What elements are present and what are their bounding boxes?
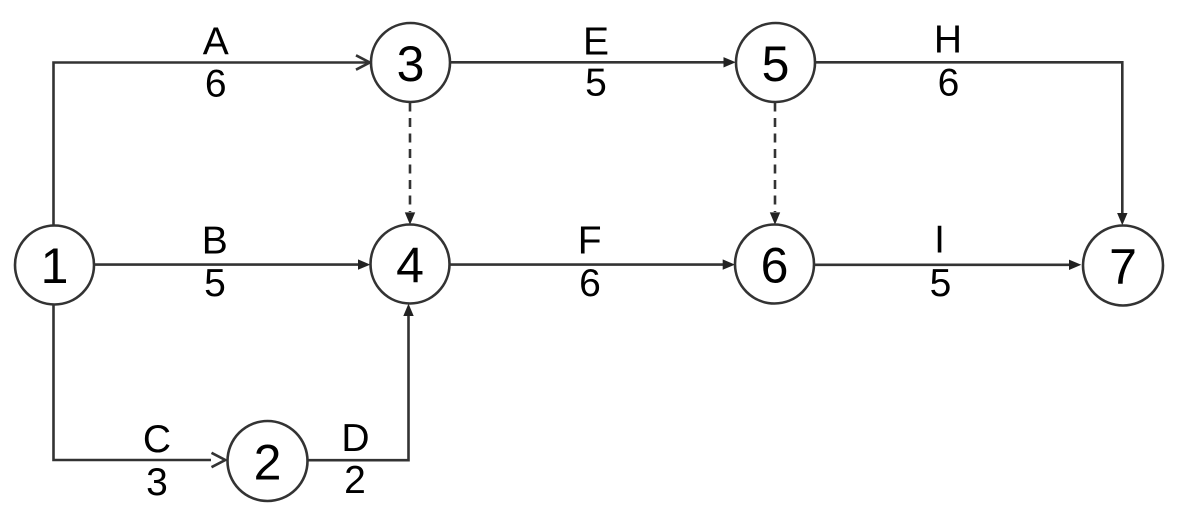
node 5 — [736, 23, 815, 102]
node 3 — [371, 23, 450, 102]
svg-text:4: 4 — [396, 237, 424, 293]
svg-text:B: B — [202, 220, 228, 263]
svg-text:6: 6 — [761, 237, 789, 293]
wire: dashed dummy from node 3 to node 4 — [409, 103, 412, 213]
svg-text:3: 3 — [146, 461, 168, 504]
wire: edge I from node 6 to node 7 — [815, 263, 1070, 266]
node 4 — [371, 225, 450, 304]
svg-text:5: 5 — [585, 62, 607, 105]
wire: edge F from node 4 to node 6 — [450, 263, 724, 266]
arrowhead: filled into node 5 (edge E) — [724, 57, 736, 67]
svg-text:3: 3 — [397, 36, 425, 92]
arrowhead: filled into node 6 (edge F) — [723, 259, 735, 269]
node 1 — [15, 226, 94, 305]
wire: edge H elbow from node 5 to node 7 — [816, 62, 1123, 213]
svg-text:2: 2 — [344, 459, 366, 502]
node 6 — [735, 225, 814, 304]
arrowhead: filled into node 7 (edge I) — [1069, 260, 1081, 270]
arrowhead: filled into node 6 (dummy 5-6) — [770, 212, 780, 224]
arrowhead: filled into node 4 from below (edge D) — [403, 304, 413, 316]
svg-text:5: 5 — [930, 262, 952, 305]
arrowhead: open V into node 3 — [356, 55, 370, 69]
svg-text:1: 1 — [41, 238, 69, 294]
svg-text:D: D — [341, 417, 369, 460]
wire: edge A elbow from node 1 up to node 3 — [54, 63, 368, 227]
svg-text:E: E — [583, 21, 609, 64]
svg-text:F: F — [578, 220, 602, 263]
svg-text:A: A — [203, 21, 229, 64]
wire: edge B from node 1 to node 4 — [94, 263, 359, 266]
svg-text:2: 2 — [254, 435, 282, 491]
wire: edge E from node 3 to node 5 — [450, 61, 724, 64]
svg-text:5: 5 — [204, 262, 226, 305]
node 7 — [1083, 226, 1163, 306]
arrowhead: open V into node 2 — [212, 453, 226, 467]
node 2 — [228, 421, 308, 501]
arrowhead: filled into node 7 from above (edge H) — [1117, 213, 1127, 225]
arrowhead: filled into node 4 (dummy 3-4) — [405, 212, 415, 224]
wire: dashed dummy from node 5 to node 6 — [774, 103, 777, 213]
svg-text:7: 7 — [1109, 239, 1137, 295]
wire: edge C elbow from node 1 down to node 2 — [54, 305, 212, 461]
wire: edge D elbow from node 2 up to node 4 — [309, 315, 409, 460]
svg-text:6: 6 — [938, 62, 960, 105]
svg-text:C: C — [143, 418, 171, 461]
svg-text:H: H — [934, 19, 962, 62]
svg-text:5: 5 — [762, 36, 790, 92]
svg-text:6: 6 — [205, 63, 227, 106]
svg-text:I: I — [934, 219, 945, 262]
svg-text:6: 6 — [579, 262, 601, 305]
arrowhead: filled into node 4 (edge B) — [358, 259, 370, 269]
